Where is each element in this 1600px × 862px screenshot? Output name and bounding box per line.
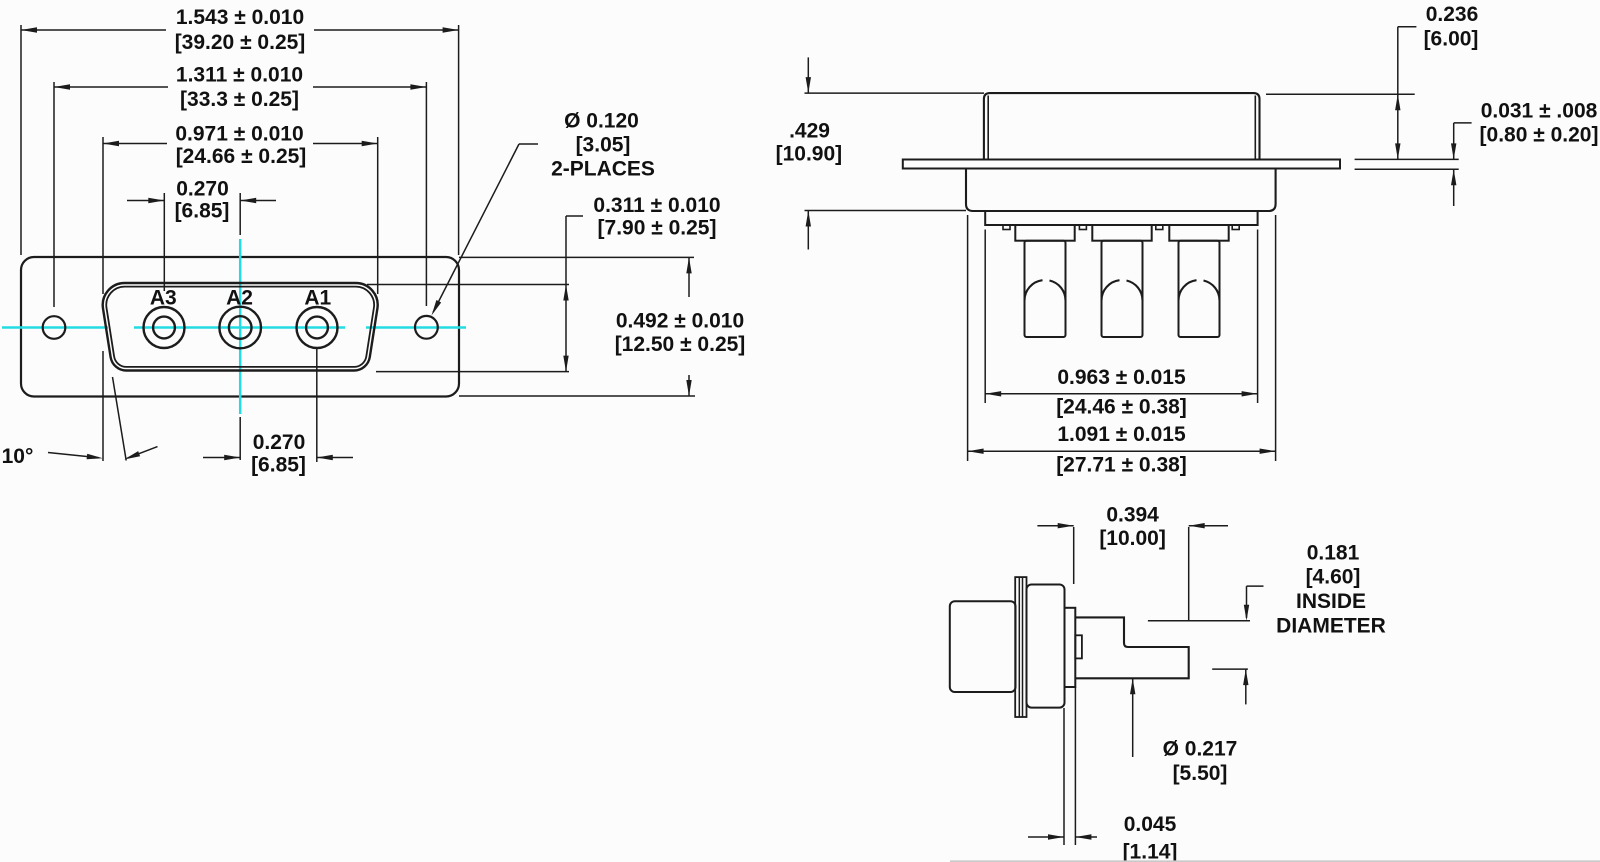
svg-text:0.963 ± 0.015: 0.963 ± 0.015 bbox=[1057, 366, 1186, 389]
extension line, cutout left bbox=[102, 137, 104, 461]
dimension text 27.71 bbox=[1056, 454, 1187, 477]
dimension text 1.091 bbox=[1057, 423, 1186, 446]
dimension 0.181 upper bbox=[1244, 586, 1264, 621]
svg-text:[1.14]: [1.14] bbox=[1123, 841, 1178, 862]
dimension text 0.181 bbox=[1307, 542, 1360, 565]
detail view: contact body bbox=[1027, 585, 1065, 708]
svg-text:INSIDE: INSIDE bbox=[1296, 590, 1366, 613]
dimension text 6.85 top bbox=[175, 200, 230, 223]
dimension text 6.00 bbox=[1424, 28, 1479, 51]
extension line, contact A3 center bbox=[163, 193, 165, 291]
dimension text 4.60 bbox=[1306, 566, 1361, 589]
extension line, insulator bottom left bbox=[805, 210, 967, 212]
label A2 bbox=[226, 287, 253, 310]
svg-text:Ø 0.120: Ø 0.120 bbox=[564, 110, 639, 133]
detail view: collar bbox=[1065, 608, 1076, 687]
dimension text 0.311 bbox=[593, 194, 720, 217]
front view: left mounting hole bbox=[43, 316, 66, 339]
dimension text 0.963 bbox=[1057, 366, 1186, 389]
svg-text:A1: A1 bbox=[304, 287, 331, 310]
dimension text 33.3 bbox=[180, 88, 299, 111]
svg-text:[12.50 ± 0.25]: [12.50 ± 0.25] bbox=[615, 333, 746, 356]
dimension 1.543 lines bbox=[21, 27, 459, 32]
leader dia 0.217 bbox=[1130, 678, 1135, 757]
svg-text:0.311 ± 0.010: 0.311 ± 0.010 bbox=[593, 194, 720, 217]
label 10 degrees bbox=[2, 445, 34, 468]
dimension 0.270 top lines bbox=[127, 198, 276, 203]
dimension text 0.270 bottom bbox=[253, 431, 306, 454]
extension line, cutout bottom edge right bbox=[376, 371, 569, 373]
dimension text 10.00 bbox=[1099, 527, 1166, 550]
svg-text:0.270: 0.270 bbox=[253, 431, 306, 454]
extension line, shroud top right bbox=[1266, 93, 1415, 95]
svg-text:[33.3 ± 0.25]: [33.3 ± 0.25] bbox=[180, 88, 299, 111]
svg-text:[6.85]: [6.85] bbox=[251, 454, 306, 477]
svg-text:Ø 0.217: Ø 0.217 bbox=[1163, 738, 1238, 761]
svg-text:[27.71 ± 0.38]: [27.71 ± 0.38] bbox=[1056, 454, 1187, 477]
svg-text:[39.20 ± 0.25]: [39.20 ± 0.25] bbox=[175, 31, 306, 54]
svg-text:A3: A3 bbox=[150, 287, 177, 310]
dimension text 0.045 bbox=[1124, 813, 1177, 836]
dimension text 0.492 bbox=[616, 310, 744, 333]
svg-text:[10.00]: [10.00] bbox=[1099, 527, 1166, 550]
dimension text 10.90 bbox=[776, 143, 843, 166]
extension line, flange bottom right bbox=[1355, 168, 1459, 170]
dimension text 39.20 bbox=[175, 31, 306, 54]
dimension 0.311 line bbox=[563, 216, 583, 372]
svg-text:[4.60]: [4.60] bbox=[1306, 566, 1361, 589]
extension line, right mounting hole bbox=[425, 82, 427, 306]
svg-text:[24.66 ± 0.25]: [24.66 ± 0.25] bbox=[176, 145, 307, 168]
dimension 0.971 lines bbox=[103, 141, 378, 146]
dimension 1.311 lines bbox=[54, 84, 426, 89]
detail view: flange disc bbox=[1015, 577, 1026, 717]
side view: insert step bbox=[985, 211, 1257, 225]
svg-text:0.236: 0.236 bbox=[1426, 3, 1479, 26]
side view: mounting flange bbox=[903, 160, 1340, 169]
leader arrow to vertical extension bbox=[48, 453, 103, 460]
extension line, collar right edge up bbox=[1073, 527, 1075, 584]
svg-text:.429: .429 bbox=[789, 120, 830, 143]
dimension text 24.46 bbox=[1056, 396, 1187, 419]
contact A3 bbox=[144, 307, 185, 348]
dimension text 6.85 bottom bbox=[251, 454, 306, 477]
front view: D-cutout outer outline bbox=[103, 283, 378, 371]
contact A1 bbox=[297, 307, 338, 348]
dimension text 0.236 bbox=[1426, 3, 1479, 26]
extension line, shroud top left bbox=[805, 92, 985, 94]
svg-text:[24.46 ± 0.38]: [24.46 ± 0.38] bbox=[1056, 396, 1187, 419]
label A1 bbox=[304, 287, 331, 310]
front view: right mounting hole bbox=[415, 316, 438, 339]
dimension text 1.14 bbox=[1123, 841, 1178, 862]
extension line, cutout right bbox=[377, 137, 379, 294]
extension line, cutout top edge right bbox=[367, 284, 569, 286]
svg-text:0.971 ± 0.010: 0.971 ± 0.010 bbox=[175, 123, 303, 146]
svg-text:A2: A2 bbox=[226, 287, 253, 310]
front view: connector flange outline bbox=[21, 257, 459, 397]
text dia 0.217 bbox=[1163, 738, 1238, 761]
side view: contact tail 1 bbox=[1015, 225, 1074, 337]
scan edge artifact bbox=[950, 860, 1600, 862]
dimension 0.270 bottom lines bbox=[203, 455, 353, 460]
text 3.05 bbox=[576, 134, 631, 157]
side view: shroud inner wall lines bbox=[988, 96, 1255, 160]
dimension text .429 bbox=[789, 120, 830, 143]
side view: contact tail 2 bbox=[1092, 225, 1151, 337]
side view: contact tail 3 bbox=[1169, 225, 1228, 337]
extension line, step left bbox=[984, 230, 986, 404]
front view: D-cutout inner outline bbox=[106, 287, 374, 367]
dimension 0.963 line bbox=[985, 391, 1257, 396]
dimension 0.492 line bbox=[686, 257, 691, 396]
side view: shroud outline bbox=[984, 93, 1260, 159]
dimension text 1.311 bbox=[176, 64, 303, 87]
extension line, step right bbox=[1257, 230, 1259, 404]
extension line, flange bottom edge right bbox=[459, 395, 695, 397]
dimension 0.181 lower bbox=[1243, 669, 1248, 704]
dimension text 0.394 bbox=[1106, 504, 1159, 527]
dimension 0.394 lines bbox=[1037, 523, 1228, 528]
dimension text 0.031 bbox=[1481, 100, 1598, 123]
svg-text:[0.80 ± 0.20]: [0.80 ± 0.20] bbox=[1480, 124, 1599, 147]
detail view: socket barrel bbox=[950, 601, 1016, 692]
svg-text:0.394: 0.394 bbox=[1106, 504, 1159, 527]
label A3 bbox=[150, 287, 177, 310]
leader to right mounting hole bbox=[432, 144, 539, 316]
extension line, tail end up bbox=[1188, 527, 1190, 621]
extension line, contact A2 center top bbox=[239, 193, 241, 235]
text 5.50 bbox=[1173, 762, 1228, 785]
svg-text:[7.90 ± 0.25]: [7.90 ± 0.25] bbox=[598, 217, 717, 240]
svg-text:1.311 ± 0.010: 1.311 ± 0.010 bbox=[176, 64, 303, 87]
side view: four insert nubs bbox=[1003, 225, 1239, 230]
svg-text:[3.05]: [3.05] bbox=[576, 134, 631, 157]
extension line, left mounting hole bbox=[53, 82, 55, 307]
svg-text:0.031 ± .008: 0.031 ± .008 bbox=[1481, 100, 1598, 123]
detail view: latch tab bbox=[1075, 635, 1082, 658]
dimension text 24.66 bbox=[176, 145, 307, 168]
svg-text:1.543 ± 0.010: 1.543 ± 0.010 bbox=[176, 6, 304, 29]
svg-text:0.045: 0.045 bbox=[1124, 813, 1177, 836]
text dia 0.120 bbox=[564, 110, 639, 133]
extension line, flange top edge right bbox=[459, 256, 694, 258]
svg-text:0.492 ± 0.010: 0.492 ± 0.010 bbox=[616, 310, 744, 333]
extension line, insulator right bbox=[1275, 215, 1277, 461]
svg-text:[5.50]: [5.50] bbox=[1173, 762, 1228, 785]
extension line, contact A1 center bottom bbox=[316, 348, 318, 462]
dimension text 1.543 bbox=[176, 6, 304, 29]
dimension text INSIDE bbox=[1296, 590, 1366, 613]
svg-text:10°: 10° bbox=[2, 445, 34, 468]
text 2-PLACES bbox=[551, 158, 655, 181]
svg-text:2-PLACES: 2-PLACES bbox=[551, 158, 655, 181]
dimension 0.236 line bbox=[1395, 27, 1416, 160]
vertical centerline through A2 bbox=[239, 239, 242, 414]
svg-text:DIAMETER: DIAMETER bbox=[1276, 615, 1386, 638]
extension line, insulator left bbox=[967, 215, 969, 461]
svg-text:[10.90]: [10.90] bbox=[776, 143, 843, 166]
extension line, bore top bbox=[1148, 620, 1250, 622]
extension line, contact A2 center bottom bbox=[239, 417, 241, 460]
dimension text 0.971 bbox=[175, 123, 303, 146]
dimension text 12.50 bbox=[615, 333, 746, 356]
svg-text:0.181: 0.181 bbox=[1307, 542, 1360, 565]
svg-text:[6.85]: [6.85] bbox=[175, 200, 230, 223]
dimension 1.091 line bbox=[968, 449, 1276, 454]
dimension .429 lines bbox=[806, 57, 811, 249]
extension line, cutout slant edge bbox=[113, 377, 127, 461]
side view: insulator body bbox=[966, 169, 1276, 212]
dimension text 0.80 bbox=[1480, 124, 1599, 147]
horizontal centerline bbox=[2, 326, 466, 329]
contact A2 bbox=[219, 307, 261, 349]
extension line, collar right down bbox=[1074, 687, 1076, 845]
extension line, flange left edge bbox=[20, 25, 22, 255]
dimension 0.031 lines bbox=[1451, 123, 1472, 206]
dimension 0.045 lines bbox=[1028, 834, 1097, 839]
svg-text:[6.00]: [6.00] bbox=[1424, 28, 1479, 51]
svg-text:0.270: 0.270 bbox=[176, 178, 229, 201]
extension line, bore bottom bbox=[1212, 668, 1248, 670]
dimension text 7.90 bbox=[598, 217, 717, 240]
dimension text DIAMETER bbox=[1276, 615, 1386, 638]
detail view: crimp tail profile bbox=[1075, 617, 1188, 678]
dimension text 0.270 top bbox=[176, 178, 229, 201]
svg-text:1.091 ± 0.015: 1.091 ± 0.015 bbox=[1057, 423, 1186, 446]
leader arrow to slant extension bbox=[124, 447, 157, 460]
extension line, flange right edge bbox=[458, 25, 460, 255]
extension line, collar left down bbox=[1063, 708, 1065, 845]
extension line, flange top right bbox=[1355, 158, 1459, 160]
